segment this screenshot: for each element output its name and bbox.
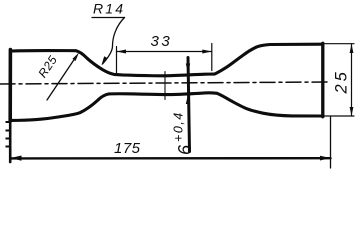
dim 33 extension line right <box>211 44 213 71</box>
R14 leader line <box>103 18 125 65</box>
dim 175 dimension line <box>11 157 331 160</box>
dim 6+0.4 dimension line (bold vertical) <box>188 58 190 152</box>
arrowhead 25 bottom <box>350 107 354 116</box>
dim 33 extension line left <box>116 47 118 75</box>
svg-text:R14: R14 <box>93 1 125 17</box>
specimen right end edge <box>321 43 324 117</box>
specimen outline: top edge <box>11 44 322 76</box>
centerline (axis, dash-dot) <box>0 82 329 84</box>
arrowhead 33 right <box>202 50 212 54</box>
specimen outline: bottom edge <box>11 93 322 121</box>
R14 underline shelf <box>92 17 125 19</box>
arrowhead 25 top <box>350 44 354 53</box>
svg-text:25: 25 <box>333 69 351 94</box>
dim 175 extension line left (left edge extended) <box>9 121 12 162</box>
dim 25 dimension line <box>351 44 353 116</box>
arrowhead 33 left <box>117 50 127 54</box>
svg-text:175: 175 <box>114 140 141 157</box>
ticks at bottom-left extension <box>6 121 10 123</box>
arrowhead R14 leader <box>102 56 108 65</box>
arrowhead R25 leader <box>72 53 79 62</box>
dim 175 extension line right <box>330 117 332 168</box>
dim 33 dimension line <box>117 51 212 53</box>
gauge mark on neck <box>164 72 166 100</box>
dim 25 extension line top <box>324 43 354 45</box>
specimen left end edge <box>8 50 12 122</box>
R25 leader line <box>47 56 77 100</box>
arrowhead 175 right <box>320 156 331 161</box>
arrowhead 6 top (points down to neck top edge) <box>186 64 190 74</box>
arrowhead 6 bottom (points up to neck bottom edge) <box>186 95 190 105</box>
dim 25 extension line bottom <box>324 115 354 117</box>
svg-text:33: 33 <box>151 33 173 50</box>
arrowhead 175 left <box>11 156 22 161</box>
